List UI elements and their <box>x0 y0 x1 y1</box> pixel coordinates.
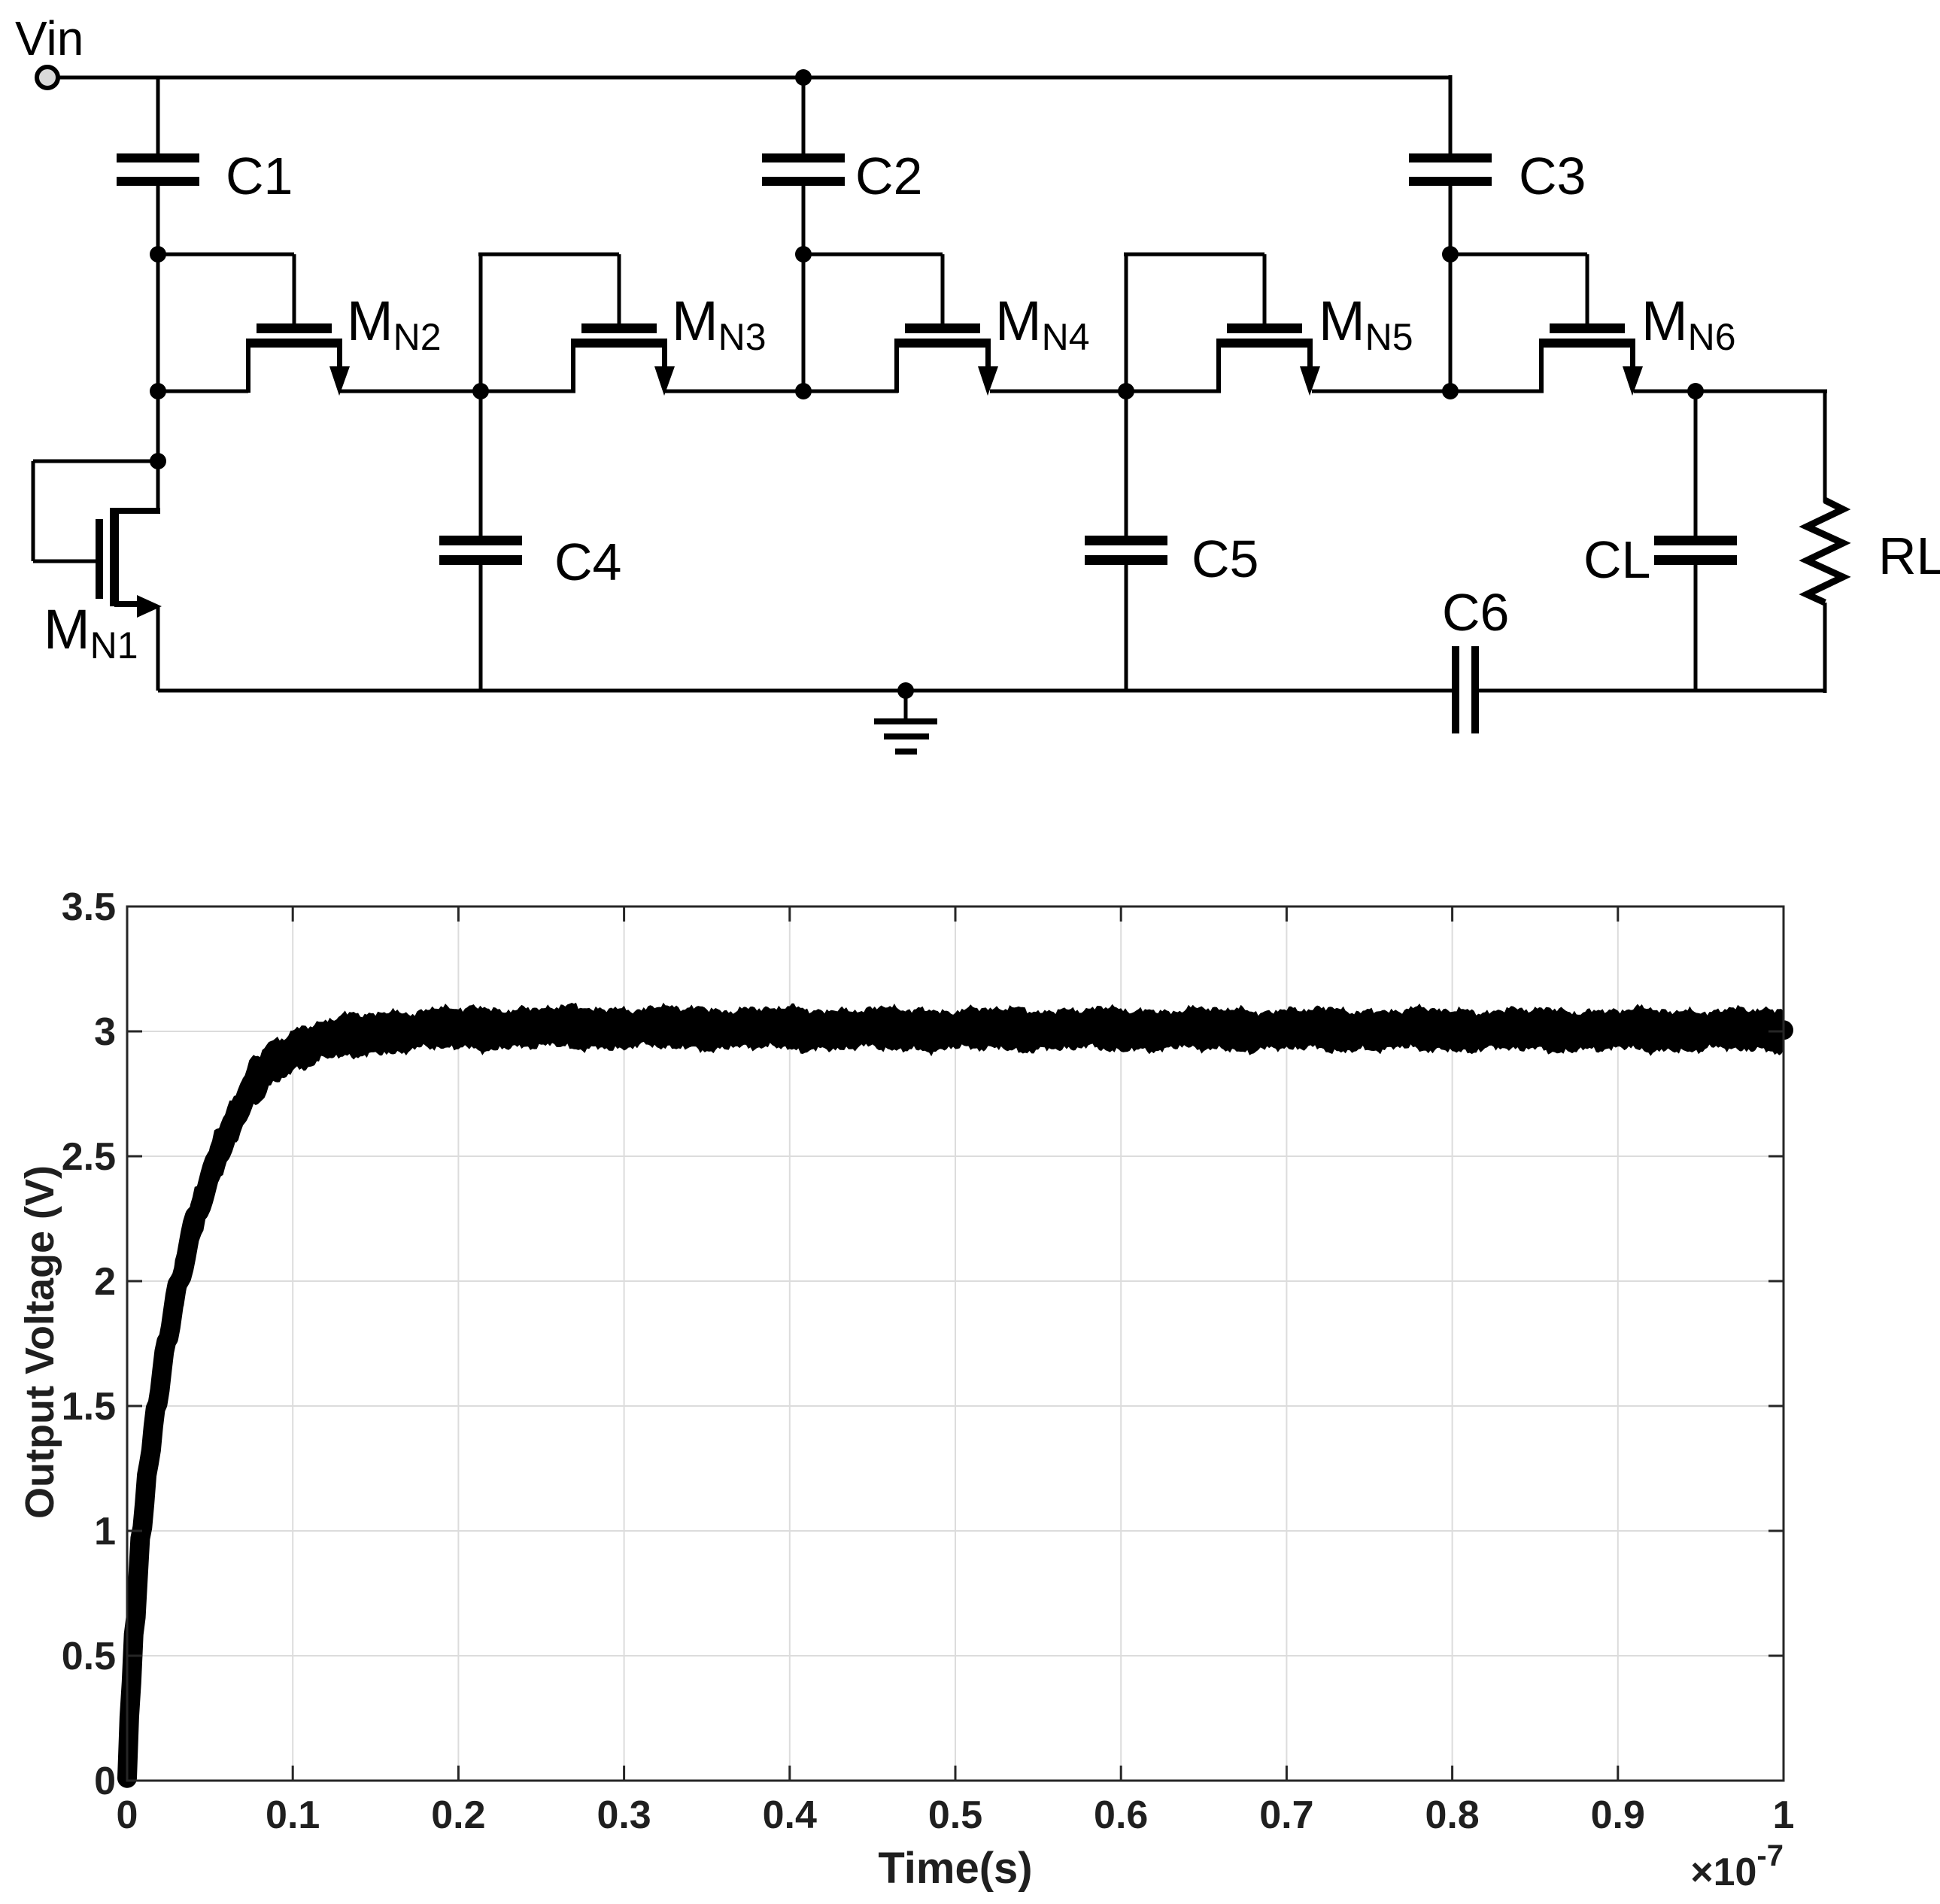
wire rail to C4 <box>479 391 483 536</box>
input terminal Vin <box>37 67 58 88</box>
svg-text:RL: RL <box>1878 527 1940 585</box>
node C2 / MN4 gate <box>795 246 812 263</box>
svg-text:C2: C2 <box>855 147 922 205</box>
svg-text:0.6: 0.6 <box>1094 1793 1148 1837</box>
capacitor C3 <box>1409 153 1492 186</box>
node rail C (C2) <box>795 383 812 399</box>
wire MN5 gate loop <box>1125 254 1128 391</box>
node top rail / C2 <box>795 69 812 86</box>
svg-text:C4: C4 <box>554 533 621 591</box>
wire middle rail segment 3 <box>665 390 898 393</box>
wire Vin rail to C1 <box>156 77 160 153</box>
chart output voltage curve <box>127 1003 1784 1781</box>
wire middle rail segment 5 <box>1312 390 1544 393</box>
svg-text:C1: C1 <box>226 147 293 205</box>
capacitor C6 (series, vertical plates) <box>1452 646 1479 733</box>
chart x tick labels <box>117 1793 1795 1837</box>
svg-text:2.5: 2.5 <box>62 1135 116 1179</box>
transistor MN3 <box>571 254 675 396</box>
wire MN3 gate loop <box>479 254 483 391</box>
svg-text:0: 0 <box>94 1760 116 1803</box>
svg-text:0.5: 0.5 <box>928 1793 982 1837</box>
transistor MN2 <box>246 254 350 396</box>
wire C3 down to middle rail <box>1449 186 1453 391</box>
svg-text:C5: C5 <box>1192 530 1258 588</box>
svg-text:0.8: 0.8 <box>1425 1793 1479 1837</box>
wire C2 down to middle rail <box>802 186 806 391</box>
wire top rail drop to C3 <box>1449 75 1453 153</box>
chart y tick labels <box>62 885 116 1803</box>
wire MN6 gate loop <box>1450 253 1587 257</box>
chart grid lines <box>127 906 1784 1781</box>
wire C4 to ground rail <box>479 565 483 691</box>
svg-text:0.2: 0.2 <box>431 1793 485 1837</box>
wire middle rail segment 2 <box>340 390 575 393</box>
svg-text:0.1: 0.1 <box>266 1793 320 1837</box>
capacitor CL <box>1654 536 1737 565</box>
wire C5 to ground rail <box>1125 565 1128 691</box>
node rail E (C3) <box>1442 383 1459 399</box>
wire rail to C5 <box>1125 391 1128 536</box>
node rail A <box>150 383 166 399</box>
capacitor C1 <box>117 153 199 186</box>
wire top rail from Vin to C3 branch <box>58 76 1450 80</box>
svg-text:C6: C6 <box>1442 583 1509 642</box>
wire CL to ground rail <box>1694 565 1698 691</box>
node MN1 gate/drain <box>150 453 166 469</box>
node C3 / MN6 gate <box>1442 246 1459 263</box>
svg-text:Time(s): Time(s) <box>878 1844 1032 1893</box>
resistor RL <box>1807 500 1843 603</box>
svg-text:C3: C3 <box>1519 147 1586 205</box>
wire C1 to middle rail and MN1 drain <box>156 186 160 513</box>
chart tick marks <box>127 906 1784 1781</box>
transistor MN5 <box>1216 254 1320 396</box>
wire Vin rail to C2 <box>802 77 806 153</box>
svg-text:3.5: 3.5 <box>62 885 116 929</box>
wire bottom ground rail (left of C6) <box>158 689 1452 693</box>
svg-text:0.4: 0.4 <box>763 1793 817 1837</box>
svg-text:0.7: 0.7 <box>1259 1793 1313 1837</box>
svg-text:0: 0 <box>117 1793 138 1837</box>
svg-text:3: 3 <box>94 1010 116 1054</box>
capacitor C2 <box>762 153 845 186</box>
node C1 / MN2 gate <box>150 246 166 263</box>
transistor MN4 <box>894 254 998 396</box>
svg-text:1: 1 <box>1773 1793 1795 1837</box>
node rail B (C4) <box>472 383 489 399</box>
wire MN4 gate loop <box>803 253 943 257</box>
svg-text:1.5: 1.5 <box>62 1385 116 1429</box>
svg-text:Output Voltage (V): Output Voltage (V) <box>17 1165 62 1519</box>
node ground rail <box>897 682 914 699</box>
capacitor C5 <box>1085 536 1167 565</box>
svg-text:CL: CL <box>1583 530 1650 589</box>
chart axes box <box>127 906 1784 1781</box>
wire middle rail segment 4 <box>990 390 1221 393</box>
capacitor C4 <box>439 536 522 565</box>
svg-text:2: 2 <box>94 1260 116 1304</box>
node rail D (C5) <box>1118 383 1134 399</box>
wire MN2 gate loop <box>158 253 294 257</box>
svg-text:0.5: 0.5 <box>62 1635 116 1678</box>
ground symbol <box>874 691 937 755</box>
wire output node to CL <box>1694 391 1698 536</box>
wire output corner to RL <box>1823 390 1827 503</box>
svg-text:0.3: 0.3 <box>597 1793 651 1837</box>
wire bottom ground rail (right of C6) <box>1479 689 1825 693</box>
svg-text:0.9: 0.9 <box>1591 1793 1645 1837</box>
transistor MN1 (diode connected, vertical) <box>33 461 162 691</box>
wire RL to ground rail <box>1823 603 1827 693</box>
wire middle rail segment 6 (output) <box>1634 390 1827 393</box>
svg-text:1: 1 <box>94 1510 116 1553</box>
transistor MN6 <box>1539 254 1643 396</box>
svg-text:Vin: Vin <box>15 11 83 65</box>
wire middle rail segment 1 <box>158 390 248 393</box>
node output <box>1687 383 1704 399</box>
